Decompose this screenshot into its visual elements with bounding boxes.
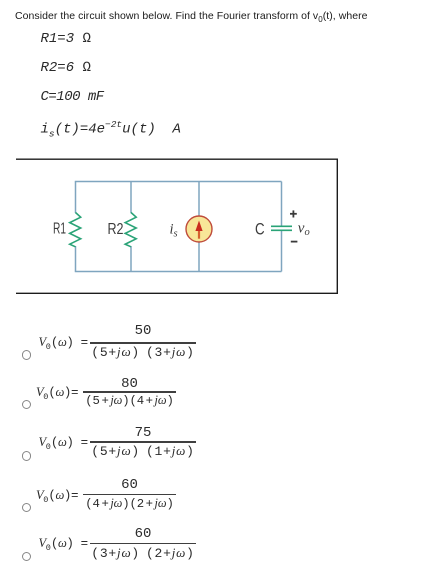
capacitor C plate bottom [271, 229, 292, 231]
option 3 radio [22, 451, 32, 461]
svg-text:R1: R1 [53, 221, 66, 238]
wire top [75, 181, 282, 183]
wire right upper [281, 182, 283, 226]
option 2 radio [22, 400, 32, 410]
option 5 radio [22, 552, 32, 562]
option 1 radio [22, 350, 32, 360]
current source arrow shaft [198, 230, 200, 239]
resistor R1 [70, 213, 81, 247]
option 2 formula [36, 385, 78, 402]
option 4 radio [22, 503, 32, 513]
option 3 formula [39, 435, 88, 452]
wire source lower [198, 242, 200, 272]
current source is [186, 216, 212, 242]
wire left upper (node A) [75, 182, 77, 214]
label minus [291, 241, 298, 243]
option 5 formula [39, 536, 88, 553]
svg-text:R2: R2 [108, 221, 124, 238]
current source arrow head [195, 221, 202, 232]
figure frame right [336, 159, 338, 294]
svg-text:is: is [170, 222, 178, 240]
svg-text:vo: vo [298, 221, 310, 239]
capacitor C plate top [271, 225, 292, 227]
option 4 formula [36, 488, 78, 505]
label plus vertical [292, 210, 294, 217]
wire left lower [75, 246, 77, 272]
wire bottom [75, 271, 282, 273]
wire source upper [198, 182, 200, 217]
question line [15, 10, 368, 24]
wire right lower [281, 231, 283, 272]
svg-text:C: C [255, 220, 265, 239]
label plus horizontal [290, 213, 297, 215]
figure frame top [16, 158, 338, 160]
resistor R2 [125, 213, 136, 247]
wire R2 lower [130, 246, 132, 272]
given equations [41, 31, 91, 47]
option 1 formula [39, 335, 88, 352]
figure frame bottom [16, 292, 338, 294]
wire R2 upper [130, 182, 132, 214]
